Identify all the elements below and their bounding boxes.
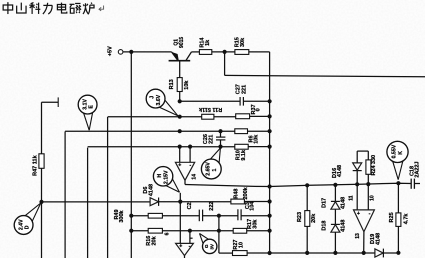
- svg-text:2A22J: 2A22J: [414, 161, 420, 177]
- svg-text:D17: D17: [322, 198, 328, 208]
- svg-text:+: +: [178, 163, 181, 169]
- svg-text:R48: R48: [234, 189, 240, 199]
- svg-text:K: K: [398, 151, 404, 155]
- svg-text:0: 0: [255, 108, 261, 111]
- svg-text:14: 14: [192, 174, 198, 180]
- svg-text:4148: 4148: [341, 220, 347, 232]
- svg-text:10: 10: [238, 242, 244, 248]
- svg-text:4148: 4148: [337, 165, 343, 177]
- svg-text:+5V: +5V: [108, 46, 114, 56]
- svg-text:1: 1: [212, 168, 218, 171]
- svg-text:10: 10: [370, 195, 376, 201]
- svg-text:2.4V: 2.4V: [18, 219, 24, 230]
- svg-text:R24: R24: [371, 165, 377, 176]
- svg-text:30k: 30k: [252, 219, 258, 229]
- svg-text:4.7k: 4.7k: [403, 213, 409, 225]
- svg-text:+: +: [179, 244, 182, 250]
- svg-text:0.55V: 0.55V: [391, 144, 397, 158]
- svg-text:221: 221: [209, 135, 215, 144]
- svg-text:30k: 30k: [240, 37, 246, 47]
- svg-text:3V: 3V: [210, 243, 215, 250]
- svg-text:300k: 300k: [119, 209, 125, 222]
- svg-text:R11 511k: R11 511k: [198, 106, 222, 112]
- svg-text:E: E: [89, 105, 95, 109]
- svg-text:4148: 4148: [148, 184, 154, 196]
- svg-text:3.1V: 3.1V: [82, 99, 88, 110]
- svg-text:3.6V: 3.6V: [156, 94, 162, 105]
- svg-text:10k: 10k: [184, 80, 190, 90]
- svg-text:-: -: [369, 211, 371, 217]
- svg-text:20k: 20k: [311, 213, 317, 223]
- svg-text:R23: R23: [297, 212, 303, 222]
- svg-text:H: H: [157, 174, 163, 178]
- svg-text:6: 6: [165, 232, 171, 235]
- svg-text:D: D: [25, 225, 31, 229]
- svg-text:C2: C2: [187, 202, 193, 209]
- svg-text:2.15V: 2.15V: [163, 170, 169, 184]
- svg-text:D18: D18: [322, 221, 328, 231]
- svg-text:R47 11k: R47 11k: [33, 154, 39, 175]
- svg-text:1k: 1k: [205, 39, 211, 46]
- svg-text:10k: 10k: [254, 134, 260, 144]
- svg-text:330: 330: [371, 155, 377, 164]
- svg-text:20k: 20k: [151, 235, 157, 245]
- svg-text:G: G: [204, 244, 209, 248]
- svg-text:4148: 4148: [376, 233, 382, 245]
- svg-text:221: 221: [241, 85, 247, 94]
- svg-text:-: -: [189, 243, 191, 249]
- svg-text:11: 11: [349, 195, 355, 201]
- svg-text:R13: R13: [169, 79, 175, 89]
- svg-text:13: 13: [355, 233, 361, 239]
- svg-text:-: -: [189, 162, 191, 168]
- svg-text:222: 222: [209, 202, 215, 211]
- svg-text:9.1k: 9.1k: [241, 149, 247, 161]
- svg-text:9015: 9015: [179, 37, 185, 48]
- svg-text:104: 104: [249, 201, 255, 211]
- svg-text:2.65V: 2.65V: [205, 162, 211, 176]
- svg-text:J: J: [149, 96, 155, 99]
- svg-text:200k: 200k: [243, 186, 249, 199]
- svg-text:R25: R25: [389, 212, 395, 222]
- svg-text:+: +: [357, 211, 360, 217]
- svg-text:4148: 4148: [341, 197, 347, 209]
